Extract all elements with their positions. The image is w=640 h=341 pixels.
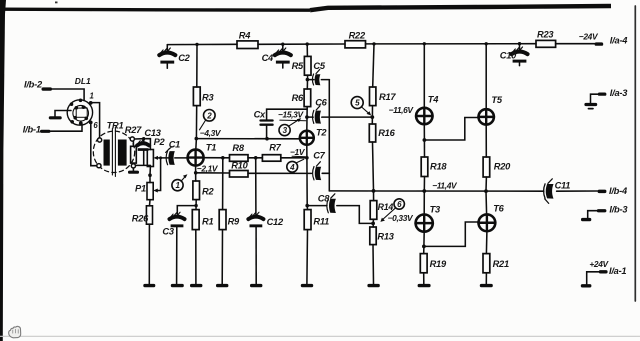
resistor R2 (193, 181, 215, 200)
wire T2 emitter down to R11 (306, 145, 309, 210)
junction rail/T5 (485, 42, 488, 45)
transistor T4 (416, 94, 439, 124)
svg-text:C10: C10 (500, 51, 517, 61)
wire R16 to -11,4V line (373, 142, 374, 191)
junction wiper wire (159, 156, 162, 159)
resistor R13 (370, 227, 395, 245)
svg-text:2: 2 (206, 111, 212, 120)
wire rail to T4 collector (423, 44, 425, 108)
svg-text:−11,4V: −11,4V (432, 180, 458, 190)
ground (socket) (49, 111, 71, 120)
junction node 2 (-4,3V) (195, 137, 199, 141)
node 5 (351, 97, 371, 116)
wire -24V rail segment C2 to R4 (167, 43, 237, 45)
svg-text:R19: R19 (430, 259, 447, 269)
capacitor C2 (159, 45, 190, 69)
terminal IIa-1 +24V with ground (581, 259, 627, 288)
transistor T2 (300, 127, 328, 144)
junction rail/C4 (281, 43, 284, 46)
svg-text:R5: R5 (292, 61, 304, 71)
wire R8 row down to C12 (255, 158, 257, 215)
junction node 4 (-1V) (305, 156, 309, 160)
svg-text:T4: T4 (428, 94, 439, 104)
terminal IIb-4 (598, 186, 628, 196)
ground (C12) (250, 284, 262, 287)
svg-text:3: 3 (283, 126, 288, 135)
resistor R8 (230, 143, 249, 161)
svg-text:I/b-3: I/b-3 (609, 204, 628, 214)
svg-text:C1: C1 (169, 140, 180, 150)
junction R8 row / R9 (221, 156, 225, 160)
svg-text:−11,6V: −11,6V (389, 105, 415, 115)
resistor R14 (370, 201, 393, 220)
potentiometer P1 (135, 183, 158, 200)
capacitor C12 (248, 212, 284, 284)
terminal IIa-4 (595, 35, 629, 45)
wire R17 to R16 (371, 106, 373, 124)
wire -24V rail segment R4 to R22 (258, 43, 345, 45)
svg-text:R11: R11 (313, 216, 329, 226)
junction node 1 (-2,1V) (194, 171, 198, 175)
svg-text:I/a-3: I/a-3 (610, 88, 628, 98)
junction rail/R5 (306, 42, 309, 45)
ground (R19) (418, 284, 431, 287)
resistor R7 (262, 143, 281, 162)
wire R14 to R13 (372, 219, 374, 227)
svg-text:5: 5 (355, 99, 360, 108)
svg-text:DL1: DL1 (75, 76, 91, 86)
wire C11 to IIb-4 terminal (557, 190, 598, 192)
svg-text:R4: R4 (239, 31, 251, 41)
wire T3 to T6 (424, 222, 479, 246)
resistor R27 (125, 125, 144, 168)
svg-text:R7: R7 (269, 143, 281, 153)
junction node 6 (-0,33V) (371, 222, 375, 226)
svg-text:C5: C5 (313, 61, 325, 71)
junction node 3 (-15,3V) / C6 (305, 115, 309, 119)
svg-text:R2: R2 (202, 186, 214, 196)
svg-text:+24V: +24V (589, 259, 609, 269)
svg-text:I/b-2: I/b-2 (24, 79, 43, 89)
wire R8 row down to R9 (222, 158, 224, 210)
terminal IIb-2 (24, 79, 52, 90)
ground (R21) (480, 284, 493, 287)
wire T3 emitter to R19 (423, 246, 425, 253)
junction -11,4V/R14 (372, 189, 376, 193)
node 2 (200, 110, 216, 130)
svg-text:C2: C2 (178, 53, 190, 63)
wire R10 to C7 (248, 172, 312, 174)
svg-text:6: 6 (93, 121, 98, 130)
svg-text:R27: R27 (125, 125, 142, 135)
ground (R9) (216, 284, 228, 287)
svg-text:T5: T5 (491, 95, 502, 105)
wire -11,4V line to T3 collector (423, 191, 425, 215)
svg-text:I/b-1: I/b-1 (23, 125, 41, 135)
wire T1 emitter to R2 (195, 166, 197, 181)
wire -11,4V output line (329, 190, 544, 192)
tube socket DL1 (67, 76, 98, 130)
wire base line to T2 (196, 138, 300, 140)
ground (C3) (171, 284, 184, 287)
svg-text:R1: R1 (202, 216, 213, 226)
wire rail to T5 collector (485, 44, 487, 110)
ground (R11) (301, 284, 313, 287)
junction -11,4V/T3 (422, 189, 426, 193)
wire IIb-2 to socket (52, 89, 84, 101)
svg-text:Cx: Cx (254, 109, 266, 119)
svg-text:1: 1 (175, 181, 180, 190)
terminal IIb-3 with ground (581, 204, 628, 221)
resistor R6 (292, 89, 311, 107)
resistor R10 (230, 161, 249, 177)
capacitor C5 branch (307, 61, 329, 85)
svg-text:R8: R8 (232, 143, 244, 153)
transformer TR1 (93, 121, 134, 177)
wire C8 to R14/R13 junction (337, 206, 373, 224)
wire T4 to T5 (424, 118, 478, 141)
wire T4 emitter to R18 (423, 140, 425, 157)
junction -11,4V/T6 (484, 189, 488, 193)
resistor R9 (219, 210, 240, 284)
wire branch to C3 (177, 206, 196, 214)
node 3 (279, 118, 301, 136)
junction R5/R6/C5 (306, 78, 310, 82)
resistor R3 (193, 87, 214, 106)
wire T6 emitter to R21 (485, 231, 488, 253)
wire R11 top to C8 (307, 205, 327, 207)
capacitor C13 (137, 128, 162, 165)
svg-text:R18: R18 (430, 161, 447, 171)
wire rail to R5 (306, 44, 308, 56)
wire R21 to ground (485, 273, 487, 284)
junction rail/C10 (518, 42, 521, 45)
svg-text:R23: R23 (537, 29, 554, 39)
capacitor C8 (318, 193, 336, 213)
wire R13 to ground (372, 245, 375, 284)
resistor R26 (132, 200, 153, 284)
capacitor C6 branch (307, 98, 372, 124)
svg-text:T6: T6 (493, 203, 504, 213)
capacitor C7 (313, 150, 326, 180)
resistor R17 (370, 87, 397, 106)
resistor R5 (292, 56, 311, 75)
capacitor C10 (500, 44, 528, 66)
svg-text:TR1: TR1 (107, 121, 124, 131)
wire R6 to T2 (306, 107, 308, 131)
potentiometer P2 (136, 137, 166, 166)
wire R20 to -11,4V line (485, 177, 487, 191)
resistor R20 (483, 157, 511, 177)
wire -24V rail segment R22 to R23 (366, 43, 537, 45)
resistor R16 (369, 124, 395, 142)
svg-text:R3: R3 (202, 92, 214, 102)
svg-text:R26: R26 (132, 213, 149, 223)
svg-text:T3: T3 (430, 204, 441, 214)
resistor R21 (483, 254, 509, 273)
svg-text:R13: R13 (377, 231, 394, 241)
svg-text:C7: C7 (313, 150, 325, 160)
junction P2/P1 (148, 173, 152, 177)
svg-text:P1: P1 (135, 184, 146, 194)
svg-text:C4: C4 (262, 53, 274, 63)
wire T1 collector to R8 (204, 157, 230, 159)
wire C7 to bus (322, 172, 329, 174)
resistor R22 (345, 30, 366, 48)
resistor R23 (536, 29, 556, 47)
resistor R19 (420, 254, 447, 273)
svg-text:−24V: −24V (579, 31, 599, 41)
wire IIb-1 to socket (51, 125, 83, 132)
junction R8/R7/C12 (254, 156, 258, 160)
terminal IIa-3 with ground (584, 88, 628, 109)
node 6 (380, 199, 404, 222)
junction node 5 (-11,6V) (370, 115, 374, 119)
svg-text:C8: C8 (318, 193, 330, 203)
junction T4 emitter (423, 138, 427, 142)
ground (R26) (143, 284, 155, 287)
junction rail/R3 (195, 43, 198, 46)
capacitor C4 (262, 44, 291, 68)
junction R11/C8 (305, 204, 309, 208)
svg-text:T2: T2 (316, 127, 327, 137)
svg-text:C3: C3 (162, 227, 174, 237)
svg-text:R6: R6 (292, 93, 304, 103)
wire feedback to P1 wiper (158, 158, 161, 191)
ground (R1) (190, 284, 202, 287)
wire T4 emitter (423, 124, 425, 140)
svg-text:6: 6 (397, 200, 402, 209)
wire rail to R3 (196, 44, 198, 87)
wire -24V rail segment R23 to terminal (556, 43, 595, 45)
svg-text:R16: R16 (378, 128, 395, 138)
capacitor C11 (544, 179, 571, 204)
junction R2/R1/C3 (194, 204, 197, 207)
terminal IIb-1 (23, 125, 51, 135)
wire -11,4V line to T6 collector (485, 191, 488, 214)
wire socket pin1 to TR1 (92, 103, 100, 138)
svg-text:C12: C12 (267, 217, 284, 227)
resistor R4 (237, 31, 258, 49)
resistor R18 (421, 157, 447, 177)
resistor R11 (304, 210, 329, 284)
svg-text:C11: C11 (555, 181, 571, 191)
transistor T5 (479, 95, 503, 125)
wire R7 to T2 emitter column (281, 157, 307, 159)
junction rail/R17 (372, 42, 375, 45)
svg-text:−1V: −1V (290, 147, 306, 157)
wire C5/C6/C7 vertical bus to -11,4V line (328, 80, 330, 191)
svg-text:R10: R10 (231, 161, 248, 171)
wire T3 emitter (423, 232, 425, 247)
FRAME (0, 0, 6, 341)
wire R18 to -11,4V line (423, 177, 425, 192)
svg-text:I/a-1: I/a-1 (609, 266, 626, 276)
svg-text:−15,3V: −15,3V (278, 110, 304, 120)
hand cursor (9, 326, 21, 338)
ground (R27) (128, 168, 139, 174)
svg-text:T1: T1 (206, 143, 216, 153)
svg-text:R20: R20 (494, 161, 511, 171)
junction rail/T4 (423, 42, 426, 45)
svg-text:P2: P2 (154, 137, 166, 147)
wire -11,4V line to R14 (373, 191, 375, 201)
wire T5 emitter to R20 (485, 125, 487, 158)
svg-text:−0,33V: −0,33V (388, 213, 414, 223)
wire node1 row to R10 (196, 172, 230, 174)
svg-text:R14: R14 (378, 202, 394, 212)
wire R8 to R7 (248, 157, 262, 159)
wire P2 bottom to P1 top (149, 167, 151, 183)
svg-text:−4,3V: −4,3V (200, 128, 222, 138)
wire P2 wiper to C1 (158, 157, 169, 159)
svg-text:R22: R22 (349, 30, 366, 40)
svg-text:4: 4 (289, 163, 295, 172)
wire R2 to R1 (195, 200, 197, 210)
wire R5 to R6 (306, 75, 308, 89)
wire rail to R17 (373, 44, 374, 87)
transistor T3 (416, 204, 441, 231)
wire socket pin6 to TR1 (91, 124, 97, 165)
transistor T1 (188, 143, 217, 166)
resistor R1 (192, 210, 213, 284)
svg-text:R9: R9 (228, 216, 240, 226)
capacitor Cx (254, 109, 307, 140)
svg-text:R17: R17 (379, 92, 396, 102)
wire R3 to T1 base column (195, 106, 198, 150)
transistor T6 (479, 203, 505, 231)
svg-text:1: 1 (90, 92, 94, 101)
svg-text:I/b-4: I/b-4 (609, 186, 628, 196)
ground (R13) (367, 284, 379, 287)
capacitor C3 (162, 212, 184, 284)
wire R19 to ground (423, 273, 425, 284)
svg-text:R21: R21 (493, 259, 509, 269)
junction T3 emitter (422, 245, 426, 249)
node 1 (172, 174, 188, 191)
svg-text:I/a-4: I/a-4 (610, 35, 628, 45)
capacitor C1 (166, 140, 188, 165)
node 4 (287, 159, 304, 172)
svg-text:C6: C6 (315, 98, 327, 108)
